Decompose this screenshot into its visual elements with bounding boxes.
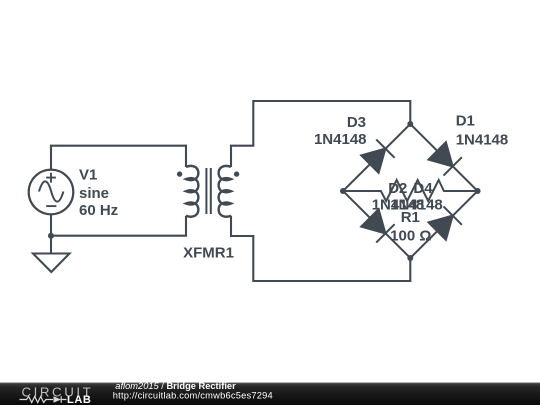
svg-text:100 Ω: 100 Ω [390, 227, 431, 244]
ground [33, 254, 70, 273]
voltage source V1 circle [29, 170, 74, 215]
svg-text:D4: D4 [413, 180, 433, 197]
svg-text:1N4148: 1N4148 [456, 132, 509, 149]
V1 sine wave [39, 181, 63, 201]
wire V1 bottom stub [50, 214, 52, 236]
svg-text:http://circuitlab.com/cmwb6c5e: http://circuitlab.com/cmwb6c5es7294 [113, 391, 273, 401]
diode D1 [429, 142, 462, 175]
XFMR1 secondary polarity dot [234, 171, 239, 176]
XFMR1 primary polarity dot [177, 171, 182, 176]
svg-text:D1: D1 [456, 112, 475, 129]
resistor R1 [343, 180, 478, 201]
node top [407, 121, 413, 127]
svg-text:60 Hz: 60 Hz [79, 202, 118, 219]
wire primary top (V1 to XFMR1) [51, 146, 186, 170]
diode D4 [429, 206, 462, 239]
node left [340, 188, 346, 194]
svg-text:XFMR1: XFMR1 [183, 245, 234, 262]
wire secondary bottom (XFMR1 to bridge bottom) [231, 216, 410, 281]
svg-text:D2: D2 [388, 180, 407, 197]
V1 plus sign [46, 173, 56, 183]
svg-text:V1: V1 [79, 166, 97, 183]
wire secondary top (XFMR1 to bridge top) [231, 101, 410, 167]
diode D2 [361, 209, 394, 242]
XFMR1 core lines [206, 168, 210, 214]
svg-text:LAB: LAB [67, 394, 91, 405]
CircuitLab logo art (resistor + diode) [20, 396, 67, 402]
wire primary bottom (XFMR1 to junction) [51, 216, 186, 236]
node right [475, 188, 481, 194]
svg-text:1N4148: 1N4148 [314, 131, 367, 148]
node bottom [407, 255, 413, 261]
svg-text:D3: D3 [347, 114, 366, 131]
junction node [48, 233, 54, 239]
bridge diamond wires [343, 124, 478, 258]
wire ground stem [50, 236, 52, 254]
V1 minus sign [46, 205, 56, 207]
svg-text:R1: R1 [401, 209, 420, 226]
svg-text:aflom2015 / Bridge Rectifier: aflom2015 / Bridge Rectifier [115, 381, 236, 391]
svg-text:sine: sine [79, 185, 109, 202]
diode D3 [361, 139, 394, 172]
XFMR1 primary coil [186, 166, 198, 217]
XFMR1 secondary coil [219, 166, 231, 217]
